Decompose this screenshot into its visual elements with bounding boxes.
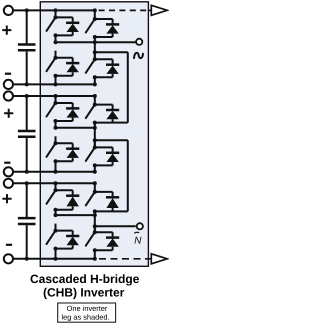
DC terminal + cell 3 bbox=[4, 179, 13, 188]
node cap bottom cell 2 bbox=[25, 170, 29, 174]
diode D9 bbox=[56, 190, 80, 210]
diode D10 bbox=[56, 231, 80, 249]
node right leg bottom cell 1 bbox=[93, 82, 97, 86]
switch S6 bbox=[47, 136, 58, 163]
capacitor C1 bbox=[18, 10, 36, 84]
wire DC+ rail cell 3 bbox=[13, 182, 95, 184]
switch S9 bbox=[47, 183, 58, 212]
AC waveform symbol bbox=[134, 53, 143, 58]
node cap bottom cell 3 bbox=[25, 257, 29, 261]
wire left leg lower stub cell 3 bbox=[55, 249, 57, 259]
neutral terminal N circle bbox=[137, 223, 143, 229]
diode D11 bbox=[95, 192, 119, 212]
DC terminal - cell 3 bbox=[4, 254, 13, 263]
switch S1 bbox=[47, 10, 58, 37]
wire right leg mid cell 3 bbox=[93, 211, 97, 232]
wire cascade link cell 2 to cell 3 bbox=[95, 140, 128, 211]
diode D4 bbox=[95, 59, 119, 77]
switch S8 bbox=[86, 140, 97, 167]
wire cell 3 to neutral N bbox=[95, 225, 136, 227]
label + cell 3 bbox=[2, 194, 11, 203]
wire DC+ rail cell 1 bbox=[13, 9, 95, 11]
diode D5 bbox=[56, 103, 80, 121]
caption box bbox=[58, 303, 116, 322]
DC terminal - cell 1 bbox=[4, 80, 13, 89]
caption text bbox=[62, 306, 109, 322]
title line 2 bbox=[44, 288, 125, 299]
switch S12 bbox=[86, 225, 97, 252]
wire phase a dashed bbox=[99, 9, 152, 11]
wire left leg mid cell 1 bbox=[54, 35, 58, 44]
wire DC+ rail cell 2 bbox=[13, 95, 95, 97]
label + cell 2 bbox=[4, 109, 13, 118]
capacitor C2 bbox=[18, 96, 36, 172]
node right leg bottom cell 2 bbox=[93, 170, 97, 174]
node left leg top cell 3 bbox=[54, 181, 58, 185]
wire left leg lower stub cell 1 bbox=[55, 76, 57, 85]
switch S11 bbox=[86, 185, 97, 214]
switch S4 bbox=[86, 52, 97, 79]
diode D6 bbox=[56, 143, 80, 161]
wire AC midpoint cell 3 bbox=[56, 213, 97, 217]
wire neutral dashed bbox=[99, 258, 151, 260]
node right leg top cell 1 bbox=[93, 8, 97, 12]
node left leg bottom cell 1 bbox=[54, 82, 58, 86]
node left leg top cell 2 bbox=[54, 94, 58, 98]
diode D7 bbox=[95, 105, 119, 123]
diode D1 bbox=[56, 17, 80, 35]
node right leg top cell 3 bbox=[93, 181, 97, 185]
wire right leg mid cell 2 bbox=[93, 123, 97, 148]
DC terminal + cell 1 bbox=[4, 6, 13, 15]
wire AC midpoint cell 2 bbox=[56, 126, 97, 130]
DC terminal - cell 2 bbox=[4, 167, 13, 176]
wire left leg mid cell 2 bbox=[54, 121, 58, 130]
node cap top cell 1 bbox=[25, 8, 29, 12]
label + cell 1 bbox=[2, 26, 11, 35]
diode D2 bbox=[56, 58, 80, 76]
tick below N terminal bbox=[135, 231, 139, 234]
switch S2 bbox=[47, 51, 58, 78]
node right leg bottom cell 3 bbox=[93, 257, 97, 261]
switch S5 bbox=[47, 96, 58, 123]
diode D3 bbox=[95, 19, 119, 37]
diode D12 bbox=[95, 232, 119, 250]
wire cascade link cell 1 to cell 2 bbox=[95, 52, 128, 122]
node left leg bottom cell 2 bbox=[54, 170, 58, 174]
node cap top cell 2 bbox=[25, 94, 29, 98]
wire AC midpoint cell 1 to output circle bbox=[56, 40, 136, 44]
inverter leg shaded box bbox=[40, 2, 148, 267]
wire DC- rail cell 2 bbox=[13, 171, 95, 173]
wire right leg lower stub cell 3 bbox=[94, 250, 96, 259]
label - cell 3 bbox=[6, 244, 12, 246]
wire left leg lower stub cell 2 bbox=[55, 161, 57, 172]
arrow phase a bbox=[151, 5, 167, 15]
wire right leg lower stub cell 2 bbox=[94, 165, 96, 171]
label N bbox=[135, 237, 142, 244]
node left leg bottom cell 3 bbox=[54, 257, 58, 261]
node cap top cell 3 bbox=[25, 181, 29, 185]
node cap bottom cell 1 bbox=[25, 82, 29, 86]
AC output terminal bbox=[136, 39, 142, 45]
title line 1 bbox=[31, 274, 139, 285]
node left leg top cell 1 bbox=[54, 8, 58, 12]
wire DC- rail cell 3 bbox=[13, 258, 95, 260]
label - cell 2 bbox=[4, 162, 10, 164]
label - cell 1 bbox=[5, 73, 11, 75]
wire right leg mid cell 1 bbox=[93, 37, 97, 59]
capacitor C3 bbox=[18, 183, 36, 258]
DC terminal + cell 2 bbox=[4, 91, 13, 100]
switch S3 bbox=[86, 12, 97, 39]
node right leg top cell 2 bbox=[93, 94, 97, 98]
switch S10 bbox=[47, 224, 58, 251]
diode D8 bbox=[95, 147, 119, 165]
arrow neutral out bbox=[151, 254, 167, 264]
wire DC- rail cell 1 bbox=[13, 83, 95, 85]
switch S7 bbox=[86, 98, 97, 125]
wire right leg lower stub cell 1 bbox=[94, 77, 96, 84]
wire left leg mid cell 3 bbox=[54, 210, 58, 217]
